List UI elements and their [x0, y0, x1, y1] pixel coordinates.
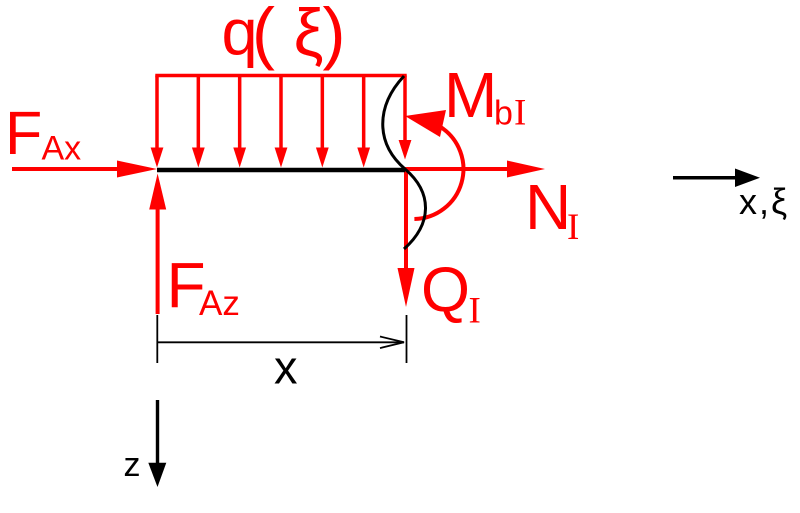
svg-text:M: M — [444, 59, 497, 131]
svg-text:N: N — [525, 171, 571, 243]
svg-text:I: I — [514, 93, 526, 134]
svg-text:): ) — [323, 0, 346, 71]
svg-text:Q: Q — [421, 255, 470, 325]
svg-text:Az: Az — [199, 284, 240, 323]
svg-text:(: ( — [252, 0, 275, 71]
svg-text:I: I — [469, 290, 481, 331]
svg-text:b: b — [494, 95, 513, 133]
svg-text:x,ξ: x,ξ — [739, 181, 789, 222]
svg-text:x: x — [274, 341, 298, 394]
svg-text:z: z — [124, 446, 141, 484]
svg-text:Ax: Ax — [42, 130, 82, 168]
svg-text:ξ: ξ — [294, 0, 324, 71]
svg-text:F: F — [5, 99, 42, 167]
svg-text:I: I — [567, 207, 579, 248]
